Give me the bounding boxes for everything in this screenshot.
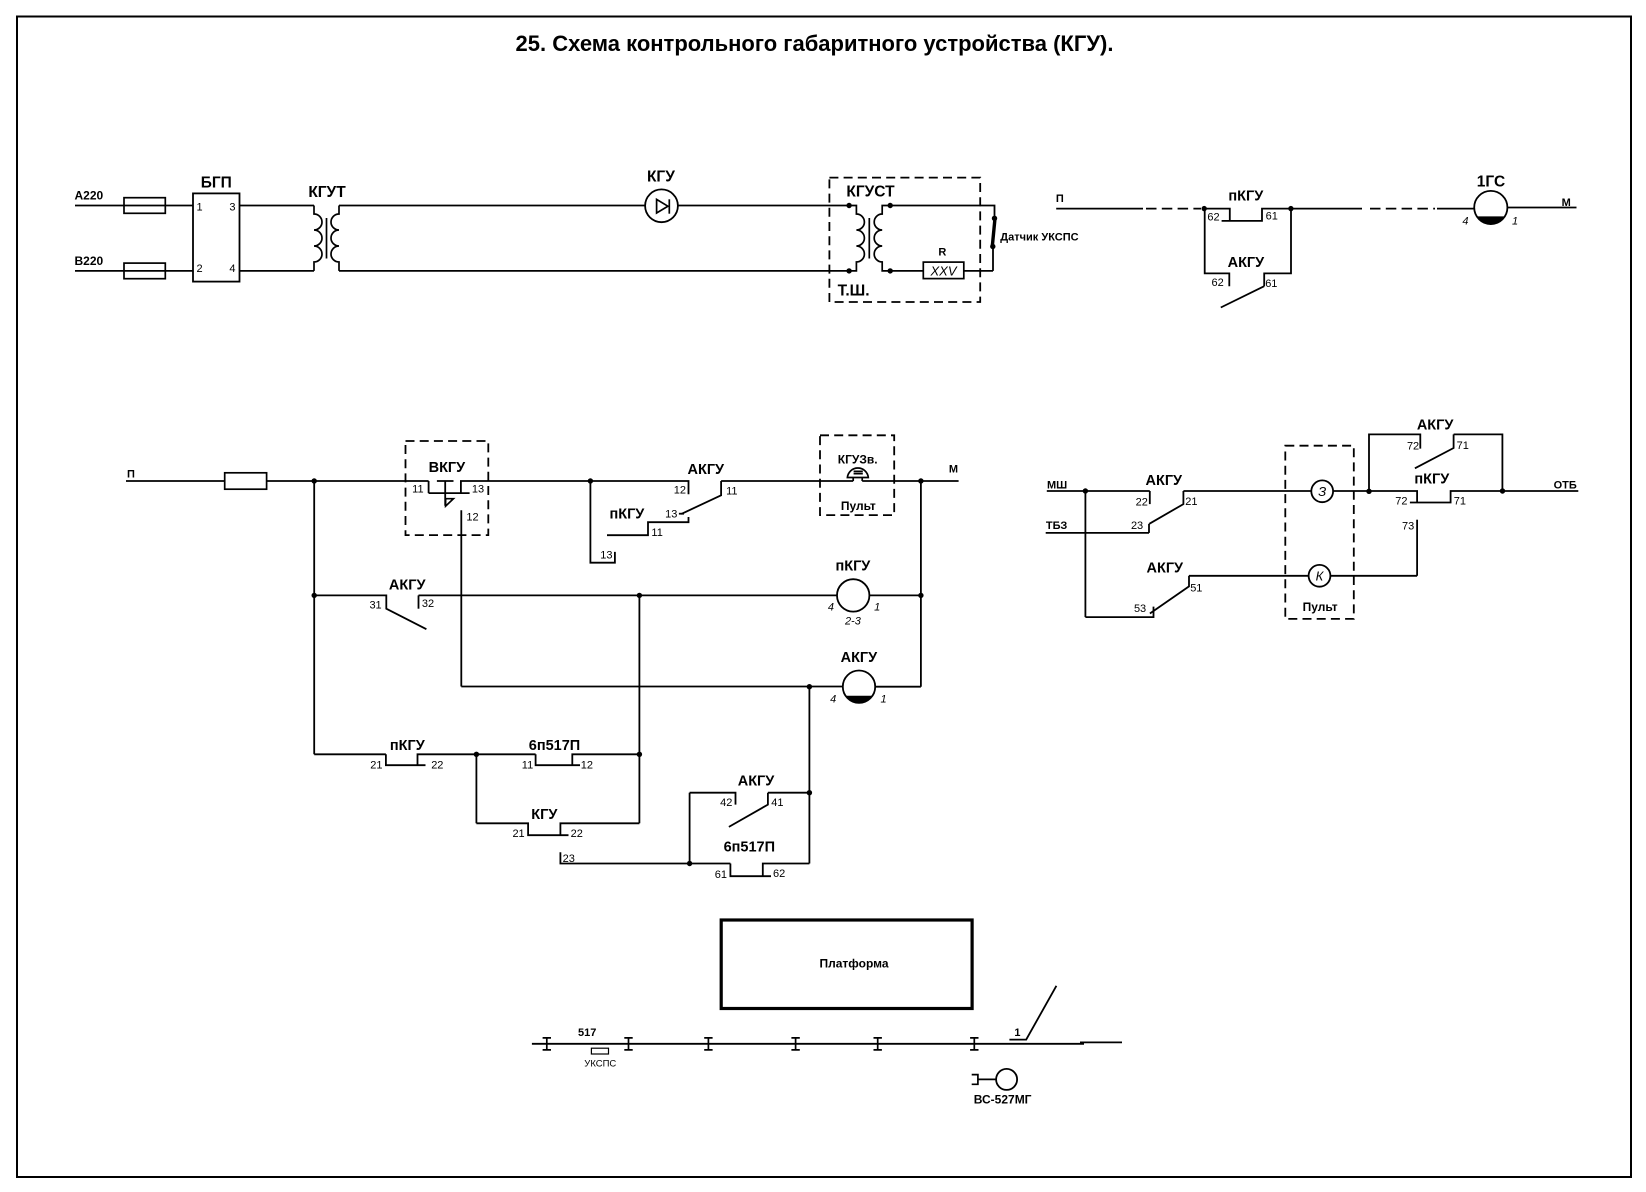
- node junction: [918, 593, 923, 598]
- wire: [1437, 208, 1474, 210]
- contact terminal 23: [560, 852, 730, 865]
- sleeper 6: [970, 1038, 978, 1050]
- svg-text:61: 61: [715, 869, 727, 881]
- svg-text:1: 1: [197, 202, 203, 214]
- svg-text:АКГУ: АКГУ: [1146, 473, 1184, 489]
- contact АКГУ 42-41: [690, 774, 810, 827]
- contact АКГУ 62-61: [1205, 209, 1291, 308]
- diode КГУ: [645, 169, 678, 223]
- svg-text:11: 11: [522, 760, 533, 772]
- wire: [1333, 490, 1369, 492]
- svg-text:пКГУ: пКГУ: [835, 559, 871, 575]
- svg-text:62: 62: [773, 868, 785, 880]
- wire: [1189, 575, 1309, 577]
- fuse A220: [124, 198, 165, 214]
- sleeper 2: [624, 1038, 632, 1050]
- svg-text:12: 12: [466, 511, 478, 523]
- wire: [75, 270, 193, 272]
- svg-text:41: 41: [771, 797, 783, 809]
- svg-text:73: 73: [1402, 520, 1414, 532]
- svg-text:6п517П: 6п517П: [724, 840, 775, 856]
- svg-text:ВКГУ: ВКГУ: [429, 460, 467, 476]
- svg-text:пКГУ: пКГУ: [1228, 189, 1264, 205]
- svg-text:XXV: XXV: [929, 264, 957, 279]
- svg-text:11: 11: [651, 527, 662, 539]
- svg-text:12: 12: [674, 484, 686, 496]
- svg-text:БГП: БГП: [201, 175, 232, 192]
- svg-text:Датчик УКСПС: Датчик УКСПС: [1000, 232, 1078, 244]
- node junction: [807, 790, 812, 795]
- contact пКГУ 21-22: [370, 738, 535, 772]
- svg-text:61: 61: [1265, 278, 1277, 290]
- svg-text:21: 21: [512, 828, 524, 840]
- bell box КГУЗв / Пульт: [820, 435, 894, 515]
- sleeper 5: [874, 1038, 882, 1050]
- svg-text:КГУ: КГУ: [531, 807, 558, 823]
- wire: [267, 480, 429, 482]
- svg-text:АКГУ: АКГУ: [841, 650, 879, 666]
- svg-text:пКГУ: пКГУ: [1414, 472, 1450, 488]
- wire: [869, 594, 921, 596]
- lamp 1ГС: [1462, 174, 1518, 228]
- fuse B220: [124, 263, 165, 279]
- wire: [1047, 490, 1150, 492]
- svg-text:АКГУ: АКГУ: [688, 462, 726, 478]
- svg-text:22: 22: [571, 828, 583, 840]
- node junction: [1288, 206, 1293, 211]
- wire: [1291, 208, 1362, 210]
- sensor Датчик УКСПС: [990, 216, 1079, 271]
- svg-text:42: 42: [720, 797, 732, 809]
- node junction: [637, 593, 642, 598]
- svg-text:АКГУ: АКГУ: [738, 774, 776, 790]
- svg-text:2: 2: [197, 263, 203, 275]
- signal mast 1: [1009, 986, 1056, 1040]
- svg-text:АКГУ: АКГУ: [1147, 560, 1185, 576]
- svg-text:4: 4: [830, 693, 836, 705]
- sleeper 4: [791, 1038, 799, 1050]
- node junction: [588, 478, 593, 483]
- svg-text:72: 72: [1407, 441, 1419, 453]
- wire: [678, 205, 849, 207]
- node junction row3: [312, 593, 317, 598]
- svg-text:пКГУ: пКГУ: [609, 506, 645, 522]
- svg-text:72: 72: [1395, 496, 1407, 508]
- svg-text:517: 517: [578, 1027, 596, 1039]
- relay box КГУСТ / Т.Ш.: [829, 178, 980, 302]
- wire branch vertical x689: [689, 793, 691, 864]
- transformer КГУТ: [308, 184, 346, 271]
- svg-text:ОТБ: ОТБ: [1554, 479, 1577, 491]
- node junction: [1083, 488, 1088, 493]
- node junction: [474, 752, 479, 757]
- svg-text:6п517П: 6п517П: [529, 738, 580, 754]
- contact пКГУ 62-61: [1204, 189, 1291, 224]
- button box ВКГУ: [406, 441, 489, 535]
- svg-text:АКГУ: АКГУ: [389, 578, 427, 594]
- svg-text:13: 13: [472, 483, 484, 495]
- wire row5: [314, 753, 386, 755]
- svg-text:М: М: [949, 463, 958, 475]
- node junction: [687, 861, 692, 866]
- wire left bus vertical: [313, 481, 315, 754]
- node junction: [637, 752, 642, 757]
- contact АКГУ 51-53: [1085, 560, 1202, 617]
- svg-text:4: 4: [1462, 216, 1468, 228]
- node junction: [918, 478, 923, 483]
- svg-text:Пульт: Пульт: [1303, 600, 1338, 614]
- node junction: [1500, 488, 1505, 493]
- signal ВС-527МГ: [972, 1069, 1032, 1107]
- contact пКГУ 11-13 branch: [607, 506, 689, 539]
- sleeper 1: [543, 1038, 551, 1050]
- svg-text:КГУЗв.: КГУЗв.: [838, 453, 878, 467]
- svg-text:2-3: 2-3: [844, 616, 862, 628]
- svg-text:пКГУ: пКГУ: [390, 738, 426, 754]
- wire: [339, 206, 849, 271]
- sensor УКСПС: [584, 1048, 616, 1069]
- wire: [240, 206, 315, 271]
- svg-text:25. Схема контрольного габарит: 25. Схема контрольного габаритного устро…: [516, 31, 1114, 56]
- svg-text:МШ: МШ: [1047, 480, 1067, 492]
- node junction: [807, 684, 812, 689]
- transformer КГУСТ: [846, 203, 893, 274]
- node junction: [312, 478, 317, 483]
- sleeper 3: [704, 1038, 712, 1050]
- wire: [1503, 490, 1579, 492]
- svg-text:21: 21: [370, 760, 382, 772]
- svg-text:23: 23: [1131, 520, 1143, 532]
- svg-text:22: 22: [1136, 496, 1148, 508]
- svg-text:Платформа: Платформа: [819, 956, 888, 970]
- svg-text:1: 1: [881, 693, 887, 705]
- svg-text:УКСПС: УКСПС: [584, 1058, 616, 1069]
- svg-text:61: 61: [1266, 211, 1278, 223]
- svg-text:62: 62: [1212, 277, 1224, 289]
- wire branch vertical x809: [808, 687, 810, 864]
- svg-text:Пульт: Пульт: [841, 499, 876, 513]
- wire: [1056, 208, 1143, 210]
- relay АКГУ: [830, 650, 886, 705]
- svg-text:ТБЗ: ТБЗ: [1046, 520, 1067, 532]
- svg-text:1ГС: 1ГС: [1477, 174, 1505, 191]
- contact terminal 73: [1402, 520, 1417, 576]
- wire: [875, 686, 921, 688]
- node junction: [1366, 489, 1371, 494]
- wire: [1046, 532, 1149, 534]
- contact АКГУ 22-21-23: [1131, 473, 1198, 533]
- svg-text:4: 4: [828, 601, 834, 613]
- contact пКГУ 72-71: [1369, 472, 1503, 508]
- svg-text:М: М: [1562, 197, 1571, 209]
- wire: [890, 206, 994, 219]
- power block БГП: [193, 175, 240, 282]
- wire dashed: [1146, 208, 1201, 210]
- wire right bus vertical: [920, 481, 922, 687]
- svg-text:К: К: [1316, 569, 1325, 584]
- svg-text:11: 11: [726, 486, 737, 498]
- svg-text:В220: В220: [75, 254, 104, 268]
- wire row4: [461, 686, 843, 688]
- contact АКГУ 12-11-13: [590, 462, 737, 520]
- svg-text:62: 62: [1207, 211, 1219, 223]
- wire: [419, 594, 837, 596]
- node junction: [1202, 206, 1207, 211]
- svg-text:11: 11: [412, 483, 423, 495]
- svg-text:R: R: [938, 247, 946, 259]
- svg-text:АКГУ: АКГУ: [1417, 417, 1455, 433]
- svg-text:13: 13: [665, 508, 677, 520]
- contact ВКГУ terminal 12: [461, 510, 478, 686]
- contact 6п517П 61-62: [715, 840, 810, 881]
- button ВКГУ contact 11-13: [412, 481, 590, 506]
- relay пКГУ: [828, 559, 880, 628]
- svg-text:А220: А220: [75, 189, 104, 203]
- svg-text:З: З: [1318, 484, 1326, 499]
- contact АКГУ 31-32: [314, 578, 434, 630]
- fuse row2: [225, 473, 267, 489]
- svg-text:1: 1: [1014, 1027, 1020, 1039]
- wire: [1183, 490, 1311, 492]
- svg-text:ВС-527МГ: ВС-527МГ: [974, 1093, 1032, 1107]
- contact АКГУ 72-71 branch: [1369, 417, 1502, 491]
- wire branch vertical x476: [475, 754, 477, 823]
- contact КГУ 21-22: [476, 807, 639, 840]
- console box Пульт: [1285, 446, 1354, 619]
- svg-text:КГУ: КГУ: [647, 169, 675, 186]
- svg-text:71: 71: [1457, 440, 1469, 452]
- svg-text:71: 71: [1454, 496, 1466, 508]
- wire: [1507, 207, 1576, 209]
- svg-text:П: П: [127, 469, 135, 481]
- svg-text:21: 21: [1185, 496, 1197, 508]
- svg-text:КГУСТ: КГУСТ: [846, 184, 895, 201]
- svg-text:Т.Ш.: Т.Ш.: [838, 282, 870, 299]
- svg-text:КГУТ: КГУТ: [308, 184, 346, 201]
- svg-text:1: 1: [874, 601, 880, 613]
- svg-text:13: 13: [600, 550, 612, 562]
- svg-text:П: П: [1056, 193, 1064, 205]
- contact 6п517П 11-12: [522, 738, 640, 772]
- svg-text:23: 23: [563, 853, 575, 865]
- contact пКГУ terminal 13 stub: [590, 481, 615, 563]
- wire: [721, 480, 959, 482]
- wire: [126, 480, 225, 482]
- track line: [532, 1042, 1122, 1043]
- svg-text:АКГУ: АКГУ: [1228, 255, 1266, 271]
- svg-text:22: 22: [431, 760, 443, 772]
- lamp К: [1309, 565, 1331, 587]
- wire: [1330, 575, 1417, 577]
- lamp З: [1311, 480, 1333, 502]
- resistor R (XXV): [923, 247, 964, 279]
- svg-text:12: 12: [581, 760, 593, 772]
- svg-text:53: 53: [1134, 603, 1146, 615]
- svg-text:1: 1: [1512, 216, 1518, 228]
- svg-text:3: 3: [229, 202, 235, 214]
- wire branch vertical: [1084, 491, 1086, 617]
- wire: [890, 270, 993, 272]
- wire dashed: [1370, 208, 1435, 210]
- wire: [75, 205, 193, 207]
- bell КГУЗв: [847, 468, 868, 481]
- svg-text:31: 31: [369, 599, 381, 611]
- svg-text:32: 32: [422, 598, 434, 610]
- wire mid bus vertical: [638, 595, 640, 823]
- svg-text:51: 51: [1190, 582, 1202, 594]
- svg-text:4: 4: [229, 263, 235, 275]
- building Платформа: [721, 920, 972, 1009]
